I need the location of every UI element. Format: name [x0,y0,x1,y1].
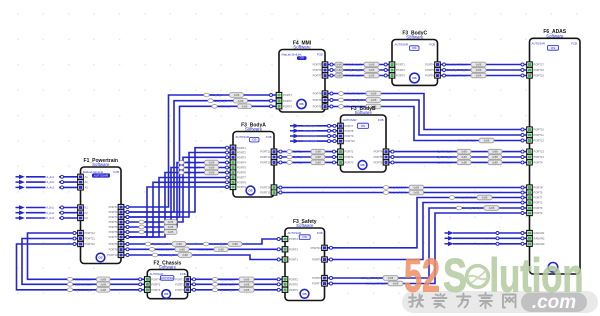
svg-text:xBodySignal: xBodySignal [303,125,317,128]
markers on BodyB-ADAS 2 [391,156,394,159]
svg-text:PORT5: PORT5 [151,282,160,286]
svg-text:A_Ax2: A_Ax2 [47,181,55,184]
svg-text:PORT6: PORT6 [374,161,383,165]
wire input A3 to F1 [26,186,78,188]
svg-text:PORT9: PORT9 [237,185,246,189]
svg-text:PORT6: PORT6 [313,68,322,72]
wire label MMI_ADAS_IN 2 [338,98,343,102]
wire RADAR2 input to F6_ADAS [453,237,527,239]
svg-text:B_AB_x: B_AB_x [293,161,303,165]
svg-text:PORT14: PORT14 [260,186,271,190]
svg-text:FCB: FCB [571,41,577,45]
F1 port K3 [78,215,84,220]
F1 port A1 [78,174,84,179]
svg-text:OS: OS [303,235,307,239]
F6_ADAS port RADAR3 [527,241,533,246]
svg-text:0x88: 0x88 [336,68,342,72]
svg-text:PORT9: PORT9 [345,134,354,138]
markers on F3_BodyA feed 5 [126,231,129,234]
F3_BodyB port PORT7 [338,123,344,128]
svg-text:OS: OS [360,163,364,167]
svg-text:F3_Body_IN: F3_Body_IN [145,230,160,234]
F3_Safety port PORT2 [282,277,288,282]
F6_ADAS port PORT10 [527,127,533,132]
svg-text:PORT12: PORT12 [260,155,271,159]
svg-text:F2_Safety_IN: F2_Safety_IN [219,288,235,292]
F3_Safety port PORT4 [282,236,288,241]
svg-text:PORT10: PORT10 [534,128,545,132]
wire label F2_Chassis_IN 3 [67,288,72,292]
svg-text:PORT8: PORT8 [109,242,118,246]
svg-text:BodyC_ADAS_IN: BodyC_ADAS_IN [447,74,467,78]
wire label Safety_ADAS upper [449,196,454,200]
svg-text:PORT9: PORT9 [109,248,118,252]
markers on BodyA-ADAS 2 [279,191,282,194]
svg-text:Safety_ADAS_C: Safety_ADAS_C [456,196,476,200]
svg-text:K_Kx1: K_Kx1 [47,207,55,210]
svg-text:Safety_ADAS_OK: Safety_ADAS_OK [361,276,383,280]
wire F1 PORT9 to F3_Safety PORT3 [124,248,283,250]
wire stub signal into F3_BodyB PORT8 [298,130,338,132]
F3_Safety port PORT6 [282,287,288,292]
svg-text:0x88: 0x88 [492,161,498,165]
F6_ADAS port PORT8 [527,185,533,190]
svg-text:0x88: 0x88 [315,161,321,165]
F4_HMI port PORT3 [276,104,282,109]
svg-text:0x88: 0x88 [242,104,248,108]
wire F3_BodyA PORT13 to F3_BodyB PORT3 [277,161,338,163]
svg-text:PORT13: PORT13 [534,150,545,154]
svg-text:0x88: 0x88 [413,186,419,190]
svg-text:0x88: 0x88 [218,247,224,251]
stub arrow BodyB 1 [294,124,300,129]
F3_BodyA port PORT4 [230,160,236,165]
F1 port PORT9 [118,247,124,252]
F6_ADAS port PORT13 [527,149,533,154]
wire F1 port row 237 to F3_BodyA PORT7 [124,178,231,238]
wire F2_Chassis PORT1 to F3_Safety PORT4 [190,278,282,280]
svg-text:PORT1: PORT1 [289,258,298,262]
svg-text:PORT12: PORT12 [85,231,96,235]
svg-text:AUTOSAR: AUTOSAR [532,41,545,45]
svg-text:B_ADAS_IN: B_ADAS_IN [437,150,452,154]
wire label B_AB 3 [287,161,292,165]
markers on F4_HMI feed 1 [126,206,129,209]
markers on HMI-BodyC 3 [330,74,333,77]
svg-text:PORT1: PORT1 [283,93,292,97]
svg-text:FCB: FCB [317,52,323,56]
svg-text:AUTOSAR: AUTOSAR [236,135,249,139]
F6_ADAS port PORT2 [527,200,533,205]
markers on Safety-ADAS 4 [330,282,333,285]
svg-text:PORT4: PORT4 [237,161,246,165]
F4_HMI port PORT9 [322,97,328,102]
markers on F4_HMI feed 3 [126,216,129,219]
input arrow A2 [19,180,25,185]
svg-text:0x88: 0x88 [179,247,185,251]
F3_BodyA port PORT15 [271,190,277,195]
svg-text:PORT3: PORT3 [345,161,354,165]
wire F3_BodyC PORT5 to F6_ADAS PORT16 [440,69,526,71]
svg-text:MMI_IN_x: MMI_IN_x [218,104,231,108]
svg-text:PORT3: PORT3 [175,288,184,292]
F4_HMI port PORT5 [322,62,328,67]
svg-text:PORT7: PORT7 [313,74,322,78]
F6_ADAS port PORT9 [527,160,533,165]
svg-text:PORT7: PORT7 [534,196,543,200]
svg-text:PORT6: PORT6 [534,206,543,210]
svg-text:F2_Chassis_IN: F2_Chassis_IN [74,282,92,286]
wire label F3_Body_IN mid 2 [179,166,184,170]
wire F3_BodyA PORT15 to F6_ADAS [277,192,527,194]
svg-text:0x88: 0x88 [238,99,244,103]
wire input A1 to F1 [26,176,78,178]
svg-text:PORT2: PORT2 [109,210,118,214]
F4_HMI port PORT1 [276,92,282,97]
F2_Chassis port PORT3 [185,287,191,292]
markers on F3_Safety PORT1 feed [126,254,129,257]
svg-text:F3_Body_IN: F3_Body_IN [185,171,200,175]
svg-text:PORT5: PORT5 [534,191,543,195]
wire stub signal into F3_BodyB PORT10 [298,140,338,142]
svg-text:PORT5: PORT5 [237,166,246,170]
svg-text:FCB: FCB [266,135,272,139]
stub arrow BodyB 2 [294,129,300,134]
svg-text:OS: OS [412,46,416,50]
watermark globe o [467,266,489,288]
svg-text:PORT8: PORT8 [237,180,246,184]
wire F1 port row 217 to F3_BodyA PORT2 [124,153,231,218]
F3_BodyC OS icon [410,73,420,83]
svg-text:A_Ax3: A_Ax3 [47,187,55,190]
F3_Safety port PORT8 [322,275,328,280]
F3_BodyC port PORT5 [435,67,441,72]
svg-text:0x88: 0x88 [315,150,321,154]
svg-text:0x88: 0x88 [393,282,399,286]
svg-text:PORT8: PORT8 [534,186,543,190]
markers on BodyB-ADAS 1 [391,150,394,153]
F2_Chassis port PORT5 [145,282,151,287]
markers on BodyB-ADAS 3 [391,161,394,164]
component block F2_Chassis [147,260,187,298]
svg-text:0x88: 0x88 [232,242,238,246]
markers on HMI-BodyC 2 [330,69,333,72]
svg-text:0x88: 0x88 [209,171,215,175]
F1 port PORT8 [118,241,124,246]
svg-text:OS: OS [248,189,252,193]
F3_BodyA port PORT3 [230,155,236,160]
wire label BodyA_ADAS 2 [383,191,388,195]
svg-text:BodyC_ADAS_IN: BodyC_ADAS_IN [447,63,467,67]
svg-text:PORT6: PORT6 [313,105,322,109]
F6_ADAS port PORT14 [527,154,533,159]
wire F3_BodyA PORT11 to F3_BodyB PORT1 [277,151,338,153]
input arrow K3 [19,216,25,221]
svg-text:OS: OS [412,76,416,80]
svg-text:PORT3: PORT3 [534,211,543,215]
stub arrow RADAR3 [448,242,454,247]
F3_Safety port PORT9 [322,257,328,262]
svg-text:0x88: 0x88 [315,155,321,159]
wire F4_HMI PORT4 to F6_ADAS PORT10 [328,94,527,130]
markers on F3_Safety lower feed 1 [193,278,196,281]
svg-text:0x88: 0x88 [489,206,495,210]
markers on F2_Chassis feed 2 [73,237,76,240]
svg-text:BodyA_ADAS: BodyA_ADAS [390,186,407,190]
svg-text:0x88: 0x88 [484,139,490,143]
svg-text:FCB: FCB [113,170,119,174]
svg-text:B_AB_x: B_AB_x [293,155,303,159]
svg-text:PORT4: PORT4 [374,150,383,154]
wire F1 PORT10 to F3_Safety PORT1 [124,255,283,260]
svg-text:0x88: 0x88 [461,155,467,159]
markers on HMI-BodyC 1 [330,63,333,66]
svg-text:K_Kx2: K_Kx2 [47,212,55,215]
svg-text:PORT5: PORT5 [374,155,383,159]
svg-text:OS: OS [252,138,256,142]
wire F4_HMI PORT7 to F3_BodyC PORT3 [328,75,389,77]
svg-text:0x88: 0x88 [244,288,250,292]
watermark 52 orange [404,249,584,302]
F6_ADAS port PORT6 [527,205,533,210]
F3_Safety port PORT1 [282,257,288,262]
wire F1 port row 237 to F3_BodyA PORT6 [124,173,231,238]
stub arrow BodyB 3 [294,134,300,139]
input arrow A1 [19,175,25,180]
svg-text:PORT3: PORT3 [289,247,298,251]
F6_ADAS OS icon [548,263,558,273]
svg-text:PORT3: PORT3 [396,74,405,78]
svg-text:PORT10: PORT10 [311,246,322,250]
svg-text:OS: OS [164,292,168,296]
F3_BodyC port PORT2 [389,67,395,72]
F1 port PORT1 [118,204,124,209]
F6_ADAS port PORT17 [527,62,533,67]
svg-text:.com: .com [532,292,576,313]
wire label F3_Safety_IN b1 [149,247,154,251]
F3_BodyA port PORT14 [271,185,277,190]
wire input A2 to F1 [26,181,78,183]
F1 port PORT4 [118,219,124,224]
F3_Safety OS icon [300,289,309,298]
F1 port K1 [78,205,84,210]
svg-text:PORT7: PORT7 [312,282,321,286]
wire label MMI_ADAS_IN 3 [338,105,343,109]
svg-text:Safety_ADAS_C: Safety_ADAS_C [463,206,483,210]
F3_BodyB port PORT8 [338,128,344,133]
svg-text:F2_Safety_IN: F2_Safety_IN [219,282,235,286]
F3_BodyA port PORT7 [230,175,236,180]
watermark gray band [402,291,598,313]
svg-text:PORT10: PORT10 [345,139,356,143]
svg-text:PORT10: PORT10 [107,253,118,257]
svg-text:0x88: 0x88 [413,191,419,195]
svg-text:F3_Safety_IN: F3_Safety_IN [156,247,172,251]
F1 port PORT7 [118,234,124,239]
wire F3_Safety PORT10 to F6_ADAS [327,198,526,248]
F2_Chassis OS icon [162,290,171,299]
svg-text:PORT1: PORT1 [396,63,405,67]
svg-text:MMI_ADAS_IN: MMI_ADAS_IN [458,139,476,143]
F1 port PORT10 [118,252,124,257]
svg-text:PORT10: PORT10 [85,242,96,246]
markers on BodyA-BodyB 1 [279,150,282,153]
F3_BodyB port PORT10 [338,139,344,144]
wire F4_HMI PORT6 to F6_ADAS PORT12 [328,107,527,141]
F3_BodyA port PORT5 [230,165,236,170]
svg-text:K_Kx3: K_Kx3 [47,217,55,220]
F1 port PORT10 [78,241,84,246]
F6_ADAS port PORT11 [527,132,533,137]
svg-text:0x88: 0x88 [209,166,215,170]
wire F1 PORT2 to F4_HMI PORT2 [124,101,277,212]
F6_ADAS port PORT12 [527,138,533,143]
F3_BodyA port PORT2 [230,150,236,155]
svg-text:PORT2: PORT2 [283,99,292,103]
svg-text:xBodySignal: xBodySignal [303,135,317,138]
svg-text:MMI_IN_x: MMI_IN_x [214,99,227,103]
wire F3_BodyB PORT4 to F6_ADAS [389,151,527,153]
svg-text:FCB: FCB [317,231,323,235]
svg-text:PORT3: PORT3 [283,104,292,108]
wire label BodyA_ADAS 1 [383,186,388,190]
svg-text:PORT2: PORT2 [396,68,405,72]
wire F3_Safety PORT9 to F6_ADAS [327,203,526,260]
svg-text:K3: K3 [85,216,89,220]
svg-text:0x88: 0x88 [168,225,174,229]
svg-text:RADAR3: RADAR3 [534,242,545,246]
svg-text:PORT1: PORT1 [109,205,118,209]
markers on F3_Safety PORT4 feed [126,243,129,246]
markers on Safety-ADAS 1 [330,246,333,249]
svg-text:MMI_Body_IN: MMI_Body_IN [345,68,362,72]
svg-text:F2_Safety_IN: F2_Safety_IN [219,277,235,281]
markers on F3_BodyA feed 9 [226,186,229,189]
svg-text:PORT9: PORT9 [534,161,543,165]
wire F1 port row 237 to F3_BodyA PORT8 [124,182,231,237]
markers on F3_BodyA feed 7 [226,176,229,179]
svg-text:FCB: FCB [429,43,435,47]
wire label F3_Safety_IN c1 [152,253,157,257]
svg-text:OS: OS [361,124,365,128]
markers on F3_Safety lower feed 3 [193,288,196,291]
svg-text:0x88: 0x88 [369,68,375,72]
wire F1 PORT1 to F4_HMI PORT1 [124,95,277,207]
svg-text:AUTOSAR: AUTOSAR [395,43,408,47]
F3_BodyA port PORT13 [271,160,277,165]
svg-text:0x88: 0x88 [482,196,488,200]
markers on F3_BodyA feed 8 [226,181,229,184]
svg-text:52: 52 [404,249,440,302]
F3_BodyB port PORT9 [338,133,344,138]
svg-text:PORT2: PORT2 [345,155,354,159]
F6_ADAS port PORT5 [527,190,533,195]
stub arrow RADAR1 [448,231,454,236]
F3_Safety port PORT7 [322,281,328,286]
wire label F3_Safety_IN a2 [203,242,208,246]
svg-text:MMI_ADAS_IN: MMI_ADAS_IN [345,92,363,96]
wire RADAR3 input to F6_ADAS [453,243,527,245]
svg-text:0x88: 0x88 [182,253,188,257]
wire F3_BodyC PORT6 to F6_ADAS PORT15 [440,75,526,77]
svg-text:PORT7: PORT7 [237,176,246,180]
F1 port A2 [78,180,84,185]
stub arrow BodyB 4 [294,139,300,144]
wire F1 port row 232 to F3_BodyA PORT5 [124,168,231,233]
svg-text:A2: A2 [85,180,89,184]
F1 port PORT3 [118,214,124,219]
svg-text:MMI_IN_x: MMI_IN_x [210,93,223,97]
markers on F3_Safety lower feed 2 [193,283,196,286]
wire label MMI_IN 2 [208,99,213,103]
svg-text:BodyA_ADAS: BodyA_ADAS [390,191,407,195]
svg-text:F3_Safety_IN: F3_Safety_IN [159,253,175,257]
svg-text:AUTOSAR: AUTOSAR [94,173,109,177]
F3_BodyC port PORT3 [389,73,395,78]
F3_BodyC port PORT4 [435,62,441,67]
markers on BodyA-BodyB 2 [279,156,282,159]
svg-text:PORT7: PORT7 [345,124,354,128]
wire F4_HMI PORT6 to F3_BodyC PORT2 [328,69,389,71]
input arrow A3 [19,185,25,190]
F1 port PORT6 [118,229,124,234]
svg-text:PORT16: PORT16 [534,68,545,72]
svg-text:PORT4: PORT4 [109,220,118,224]
svg-text:0x88: 0x88 [209,161,215,165]
svg-text:0x88: 0x88 [369,63,375,67]
svg-text:PORT2: PORT2 [237,151,246,155]
svg-text:PORT6: PORT6 [237,171,246,175]
component block F6_ADAS [530,29,581,274]
svg-text:PORT5: PORT5 [109,225,118,229]
wire input K3 to F1 [26,217,78,219]
F6_ADAS port PORT3 [527,210,533,215]
input arrow K1 [19,205,25,210]
svg-text:F3_Body_IN: F3_Body_IN [185,161,200,165]
svg-text:B_ADAS_IN: B_ADAS_IN [437,161,452,165]
svg-text:F3_Body_IN: F3_Body_IN [145,220,160,224]
svg-text:PORT3: PORT3 [237,155,246,159]
svg-text:A_Ax1: A_Ax1 [47,176,55,179]
svg-text:PORT4: PORT4 [425,63,434,67]
F4_HMI port PORT8 [322,91,328,96]
F3_BodyB port PORT2 [338,154,344,159]
wire F1 PORT8 to F3_Safety PORT4 [124,239,283,244]
F1 port PORT11 [78,236,84,241]
F6_ADAS port RADAR1 [527,230,533,235]
markers on F3_BodyA feed 4 [126,226,129,229]
svg-text:OS: OS [300,56,304,60]
markers on HMI-ADAS 1 [330,92,333,95]
svg-text:F3_Safety_IN: F3_Safety_IN [196,247,212,251]
F3_BodyA port PORT9 [230,184,236,189]
svg-text:A1: A1 [85,175,89,179]
svg-text:PORT5: PORT5 [313,63,322,67]
F4_HMI port PORT2 [276,98,282,103]
component block F3_BodyA [233,122,274,197]
watermark .com box [521,292,587,313]
wire F1 port row 222 to F3_BodyA PORT3 [124,157,231,222]
svg-text:A3: A3 [85,186,89,190]
svg-text:B_ADAS_IN: B_ADAS_IN [437,155,452,159]
markers on HMI-ADAS 3 [330,105,333,108]
component block F3_Safety [285,219,325,301]
svg-text:MMI_ADAS_IN: MMI_ADAS_IN [345,98,363,102]
markers on F2_Chassis feed 3 [73,243,76,246]
wire F3_BodyA PORT12 to F3_BodyB PORT2 [277,156,338,158]
wire label B_AB 2 [287,155,292,159]
F3_Safety port PORT10 [322,245,328,250]
